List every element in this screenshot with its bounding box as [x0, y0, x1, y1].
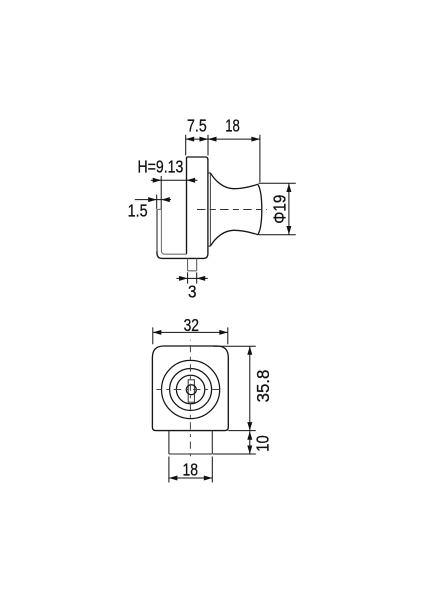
svg-text:35.8: 35.8 [253, 369, 273, 402]
svg-text:1.5: 1.5 [128, 201, 148, 221]
svg-text:3: 3 [188, 282, 197, 302]
svg-text:10: 10 [252, 435, 272, 452]
svg-text:32: 32 [184, 315, 199, 335]
svg-text:Φ19: Φ19 [270, 195, 290, 224]
svg-text:H=9.13: H=9.13 [137, 156, 183, 176]
svg-text:18: 18 [183, 459, 199, 479]
svg-text:18: 18 [225, 116, 240, 136]
svg-text:7.5: 7.5 [187, 116, 207, 136]
